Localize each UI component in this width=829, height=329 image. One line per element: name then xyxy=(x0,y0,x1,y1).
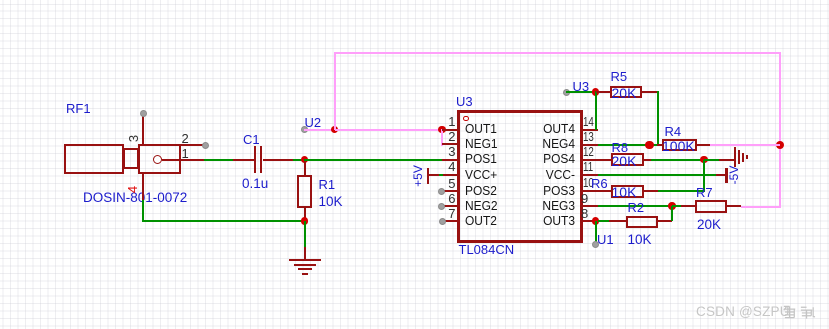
resistor R2 xyxy=(0,0,1,1)
RF1 pin 3 number label xyxy=(127,135,140,142)
R7 designator label xyxy=(696,185,713,200)
power port +5V xyxy=(0,0,1,1)
RF1 designator label xyxy=(66,101,91,116)
U3 part label TL084CN xyxy=(459,242,515,257)
RF1 pin 3 stem xyxy=(142,114,144,144)
wire U3 label to R5 junction xyxy=(566,91,596,93)
+5V label xyxy=(411,162,425,190)
wire vertical R8 junction to R6 line xyxy=(703,160,705,192)
RF1 pin 3 no-connect dot xyxy=(140,110,147,117)
wire R6 to vertical xyxy=(658,190,705,192)
wire pink right vertical xyxy=(779,52,781,208)
op-amp U3 box TL084CN xyxy=(457,110,583,243)
U3 pin 1 name OUT1 xyxy=(465,122,497,135)
resistor R5 xyxy=(0,0,1,1)
RF1 pin 4 stem xyxy=(142,173,144,200)
R4 value label 100K xyxy=(662,138,695,154)
U3 pin 1 number xyxy=(430,115,456,128)
R8 value label 20K xyxy=(612,153,637,169)
wire U3 pin11 to -5V xyxy=(598,174,716,176)
power port -5V xyxy=(0,0,1,1)
net label U2 xyxy=(305,115,322,130)
resistor R7 xyxy=(0,0,1,1)
wire pink top horizontal xyxy=(334,52,781,54)
U3 pin 8 stem xyxy=(583,220,598,222)
wire U2 label to corner (pink) xyxy=(304,129,336,131)
U3 pin 2 name NEG1 xyxy=(465,137,498,150)
U3 pin 13 name NEG4 xyxy=(497,137,575,150)
RF1 pin 2 stem xyxy=(181,144,205,146)
wire pink jog pin1 to pin2 xyxy=(441,129,443,146)
wire junction to rotated ground xyxy=(704,159,719,161)
watermark CJK glyphs xyxy=(782,304,816,320)
U3 pin 6 stem xyxy=(442,205,458,207)
R1 designator label xyxy=(319,177,336,192)
wire pink corner to U3 pin1 xyxy=(335,129,444,131)
wire C1 to junction xyxy=(293,159,306,161)
junction R1 bottom node xyxy=(301,217,309,225)
wire R2 up to R7 junction xyxy=(671,206,673,221)
U3 pin 13 number xyxy=(583,130,594,143)
U3 pin 3 number xyxy=(430,145,456,158)
U3 pin 5 number xyxy=(430,177,456,190)
junction R8/R6 node xyxy=(700,156,708,164)
U3 pin 9 name NEG3 xyxy=(497,199,575,212)
wire pin8 down to U1 xyxy=(595,221,597,243)
U3 designator label xyxy=(456,94,473,109)
U3 pin 7 no-connect dot xyxy=(439,218,446,225)
U3 pin 4 name VCC+ xyxy=(465,168,497,181)
U3 pin 11 stem xyxy=(583,174,598,176)
wire junction down to pin14 xyxy=(595,91,597,130)
net label U1 xyxy=(597,232,614,247)
wire R8 to ground junction xyxy=(651,159,705,161)
connector RF1 body xyxy=(0,0,1,1)
U3 pin 7 number xyxy=(430,207,456,220)
U3 pin 10 stem xyxy=(583,190,598,192)
-5V label xyxy=(727,161,741,189)
U3 pin 5 name POS2 xyxy=(465,184,497,197)
U3 pin 8 number xyxy=(581,207,588,220)
U3 pin 7 name OUT2 xyxy=(465,214,497,227)
U3 pin 3 stem xyxy=(442,159,458,161)
RF1 pin 2 number label xyxy=(182,132,189,145)
U3 pin 14 stem xyxy=(583,129,598,131)
R6 designator label xyxy=(591,176,608,191)
U3 pin8 junction node xyxy=(592,217,600,225)
R2 value label 10K xyxy=(628,232,652,247)
U3 pin 11 name VCC- xyxy=(497,168,575,181)
U3 pin 2 number xyxy=(430,130,456,143)
resistor R6 xyxy=(0,0,1,1)
RF1 pin 2 no-connect dot xyxy=(202,142,209,149)
resistor R8 xyxy=(0,0,1,1)
RF1 part number label DOSIN-801-0072 xyxy=(83,190,187,205)
junction on pin13 wire xyxy=(645,141,654,150)
junction pink corner node xyxy=(331,126,339,134)
U3 pin 9 number xyxy=(581,192,588,205)
U3 pin 11 number xyxy=(583,160,593,173)
wire pink bottom horizontal to R7 xyxy=(741,206,780,208)
U3 pin 6 no-connect dot xyxy=(438,203,445,210)
RF1 pin 1 number label xyxy=(182,147,189,160)
U3 pin 14 number xyxy=(583,115,594,128)
R2 designator label xyxy=(628,200,645,215)
R8 designator label xyxy=(612,140,629,155)
U3 pin 2 stem xyxy=(442,143,458,145)
junction R2/R7 node xyxy=(668,202,676,210)
C1 value label 0.1u xyxy=(242,176,268,191)
wire RF1 pin1 to C1 xyxy=(204,159,234,161)
net U1 open-end dot xyxy=(592,241,599,248)
RF1 pin 4 number label xyxy=(126,186,139,193)
resistor R4 xyxy=(0,0,1,1)
U3 pin1 indicator ring xyxy=(463,116,469,122)
U3 pin 7 stem xyxy=(442,220,458,222)
capacitor C1 xyxy=(0,0,1,1)
wire U3 pin9 to R7 junction xyxy=(598,205,673,207)
wire RF1 pin4 horizontal to R1 bottom xyxy=(142,220,305,222)
U3 pin 6 number xyxy=(430,192,456,205)
net U2 open-end dot xyxy=(301,126,308,133)
R5 designator label xyxy=(611,69,628,84)
C1 designator label xyxy=(243,132,260,147)
U3 pin 12 number xyxy=(583,145,594,158)
wire U3 pin13 to R4 xyxy=(598,144,659,146)
U3 pin 12 name POS4 xyxy=(497,152,575,165)
R7 value label 20K xyxy=(697,217,721,232)
U3 pin 4 stem xyxy=(442,174,458,176)
junction C1/R1 node xyxy=(301,156,309,164)
U3 pin 5 stem xyxy=(442,190,458,192)
U3 pin 4 number xyxy=(430,160,456,173)
U3 pin 3 name POS1 xyxy=(465,152,497,165)
U3 pin 13 stem xyxy=(583,144,598,146)
wire pink vertical up from corner xyxy=(334,52,336,130)
junction pink right at R4 line xyxy=(776,141,785,150)
U3 pin 12 stem xyxy=(583,159,598,161)
U3 pin 9 stem xyxy=(583,205,598,207)
wire pink from R4 to right vertical xyxy=(710,144,780,146)
R6 value label 10K xyxy=(612,184,637,200)
U3 pin 1 stem xyxy=(442,129,458,131)
R5 value label 20K xyxy=(612,85,637,101)
ground symbol rotated (right) xyxy=(0,0,1,1)
junction at U3 pin1 xyxy=(438,126,446,134)
wire R5 right down to R4 line xyxy=(657,91,659,146)
resistor R1 xyxy=(0,0,1,1)
U3 pin 14 name OUT4 xyxy=(497,122,575,135)
R1 value label 10K xyxy=(319,194,343,209)
net U3 open-end dot xyxy=(563,89,570,96)
ground symbol GND1 xyxy=(0,0,1,1)
net label U3 (feedback) xyxy=(573,79,590,94)
junction R5 left node xyxy=(592,88,600,96)
wire R1 bottom to ground xyxy=(304,221,306,247)
wire junction to U3 pin3 xyxy=(304,159,443,161)
U3 pin 10 number xyxy=(583,176,594,189)
U3 pin 8 name OUT3 xyxy=(497,214,575,227)
U3 pin 10 name POS3 xyxy=(497,184,575,197)
U3 pin 5 no-connect dot xyxy=(438,188,445,195)
watermark CSDN xyxy=(696,304,790,319)
RF1 pin 1 stem xyxy=(162,159,205,161)
U3 pin 6 name NEG2 xyxy=(465,199,498,212)
R4 designator label xyxy=(665,124,682,139)
wire RF1 pin4 to ground rail (vertical) xyxy=(142,200,144,223)
